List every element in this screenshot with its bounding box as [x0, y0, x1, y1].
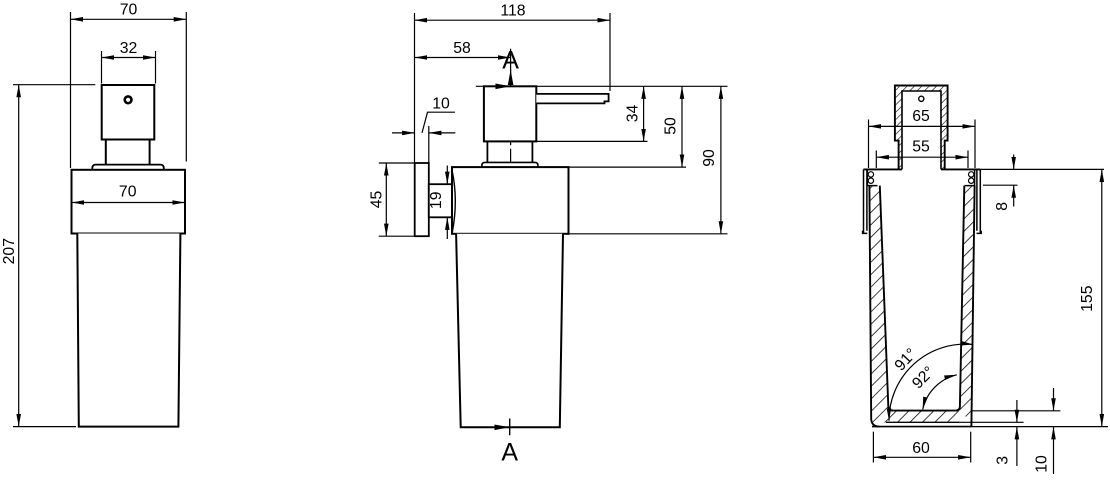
- dim 55 line: [876, 156, 968, 158]
- dim 10 arrow top right view: [1053, 388, 1055, 411]
- dim 70 top ext right: [185, 12, 187, 162]
- dim 8 arrow bottom: [1013, 185, 1015, 206]
- pump head side: [484, 86, 536, 141]
- svg-text:8: 8: [994, 202, 1011, 211]
- holder bottom: [872, 426, 971, 428]
- angle 91 arc: [889, 344, 973, 421]
- section arrow top: [476, 85, 511, 87]
- holder wall right: [977, 169, 982, 233]
- dim 207 ext bottom: [13, 426, 76, 428]
- vent hole: [919, 96, 924, 101]
- rim top left: [864, 168, 903, 170]
- dim 60 line: [873, 456, 970, 458]
- svg-text:155: 155: [1079, 285, 1096, 312]
- dim 55 ext right: [967, 151, 969, 169]
- mounting block: [429, 184, 452, 217]
- head section hatch ring: [895, 86, 948, 170]
- inner bottom ext: [971, 410, 1060, 412]
- dim 34 line: [643, 86, 645, 141]
- svg-text:70: 70: [119, 183, 137, 200]
- svg-text:A: A: [501, 438, 518, 466]
- dim 3 arrow bottom: [1016, 427, 1018, 466]
- cup side: [456, 234, 563, 427]
- svg-text:65: 65: [912, 108, 930, 125]
- svg-text:207: 207: [1, 238, 18, 264]
- pump flange front: [92, 165, 164, 170]
- angle 92 arc: [923, 375, 957, 410]
- glass lip right: [965, 169, 975, 185]
- pump neck side left edge: [486, 141, 488, 162]
- glass wall right outer: [971, 186, 974, 427]
- rim ext to 155/8: [980, 168, 1104, 170]
- rim top right: [941, 168, 980, 170]
- dim 10 ext right: [428, 126, 430, 163]
- dim 10 arrow bottom right view: [1053, 427, 1055, 474]
- holder bottom ext: [971, 426, 1108, 428]
- head cavity inner lines: [902, 91, 941, 169]
- dim 70 top line: [71, 18, 187, 20]
- ext pump top right: [536, 85, 727, 87]
- head section outer outline: [895, 86, 948, 170]
- dim 65 ext right: [974, 120, 976, 169]
- glass wall left outer: [869, 186, 879, 427]
- svg-text:3: 3: [995, 456, 1012, 465]
- holder collar side: [452, 167, 569, 234]
- glass hatch bottom slab: [871, 411, 959, 425]
- section line A-A: [510, 49, 512, 181]
- svg-text:34: 34: [625, 105, 642, 123]
- dim 32 ext right: [155, 51, 157, 84]
- dim 10 arrow left: [392, 132, 415, 134]
- dim 8 ext bottom: [983, 184, 1018, 186]
- dim 70 collar line: [72, 202, 186, 204]
- dim 58 line: [415, 57, 511, 59]
- dim 45 ext bottom: [379, 235, 415, 237]
- dim 50 line: [681, 86, 683, 167]
- dim 45 line: [385, 163, 387, 236]
- dim 118 ext right: [609, 13, 611, 91]
- pump neck front right edge: [149, 140, 151, 165]
- cup front: [77, 234, 180, 427]
- svg-text:10: 10: [432, 96, 450, 113]
- cup inner bottom: [893, 410, 955, 412]
- glass bottom ext: [960, 421, 1024, 423]
- dim 65 line: [869, 125, 976, 127]
- dim 32 ext left: [101, 51, 103, 84]
- section arrow bottom: [477, 426, 510, 428]
- collar edge arc: [452, 172, 455, 233]
- svg-text:45: 45: [368, 191, 385, 209]
- wall plate: [415, 163, 429, 236]
- dim 32 line: [102, 57, 156, 59]
- dim 3 arrow top: [1016, 400, 1018, 422]
- svg-text:50: 50: [663, 117, 680, 135]
- glass outer bottom: [886, 421, 960, 423]
- dim 10 arrow right: [429, 132, 456, 134]
- dim 60 ext right: [970, 432, 972, 463]
- svg-text:19: 19: [428, 191, 445, 209]
- dim 19 arrow bottom: [446, 217, 448, 239]
- svg-text:10: 10: [1034, 455, 1051, 473]
- dim 70 top ext left: [70, 12, 72, 168]
- dim 60 ext left: [872, 432, 874, 463]
- section tick bottom: [509, 419, 511, 436]
- glass lip left: [867, 169, 877, 185]
- section arrow up under A: [510, 70, 512, 87]
- svg-text:70: 70: [120, 2, 138, 19]
- svg-text:90: 90: [701, 149, 718, 167]
- dim 207 ext top: [13, 84, 95, 86]
- dim 19 arrow top: [446, 166, 448, 185]
- glass lip right coil: [969, 172, 974, 177]
- glass wall left inner: [880, 186, 894, 411]
- spout: [536, 94, 608, 104]
- dim 65 ext left: [868, 120, 870, 169]
- svg-text:60: 60: [912, 440, 930, 457]
- dim 8 arrow top: [1013, 155, 1015, 170]
- dim 155 line: [1101, 169, 1103, 426]
- dim 207 line: [18, 85, 20, 427]
- svg-text:55: 55: [912, 138, 930, 155]
- pump button hole: [125, 96, 132, 103]
- dim 10 leader: [422, 112, 455, 133]
- dim 118 line: [415, 19, 611, 21]
- ext collar top right: [569, 166, 687, 168]
- ext pump bottom right: [536, 140, 647, 142]
- dim 118 ext left / 58 / 10 shared: [414, 13, 416, 163]
- svg-text:32: 32: [120, 40, 138, 57]
- pump head front: [102, 85, 155, 140]
- holder collar front: [72, 170, 186, 234]
- svg-text:118: 118: [500, 2, 525, 19]
- glass hatch right wall: [960, 186, 975, 423]
- pump flange side: [482, 162, 538, 167]
- pump neck side right edge: [531, 141, 533, 162]
- glass lip left coil: [868, 172, 873, 177]
- dim 55 ext left: [875, 151, 877, 169]
- glass hatch left wall: [869, 186, 888, 411]
- holder wall left: [863, 169, 868, 233]
- glass wall right inner: [955, 186, 964, 411]
- svg-text:58: 58: [453, 40, 471, 57]
- dim 45 ext top: [379, 162, 415, 164]
- ext collar bottom right: [569, 233, 728, 235]
- pump neck front left edge: [105, 140, 107, 165]
- dim 90 line: [720, 86, 722, 234]
